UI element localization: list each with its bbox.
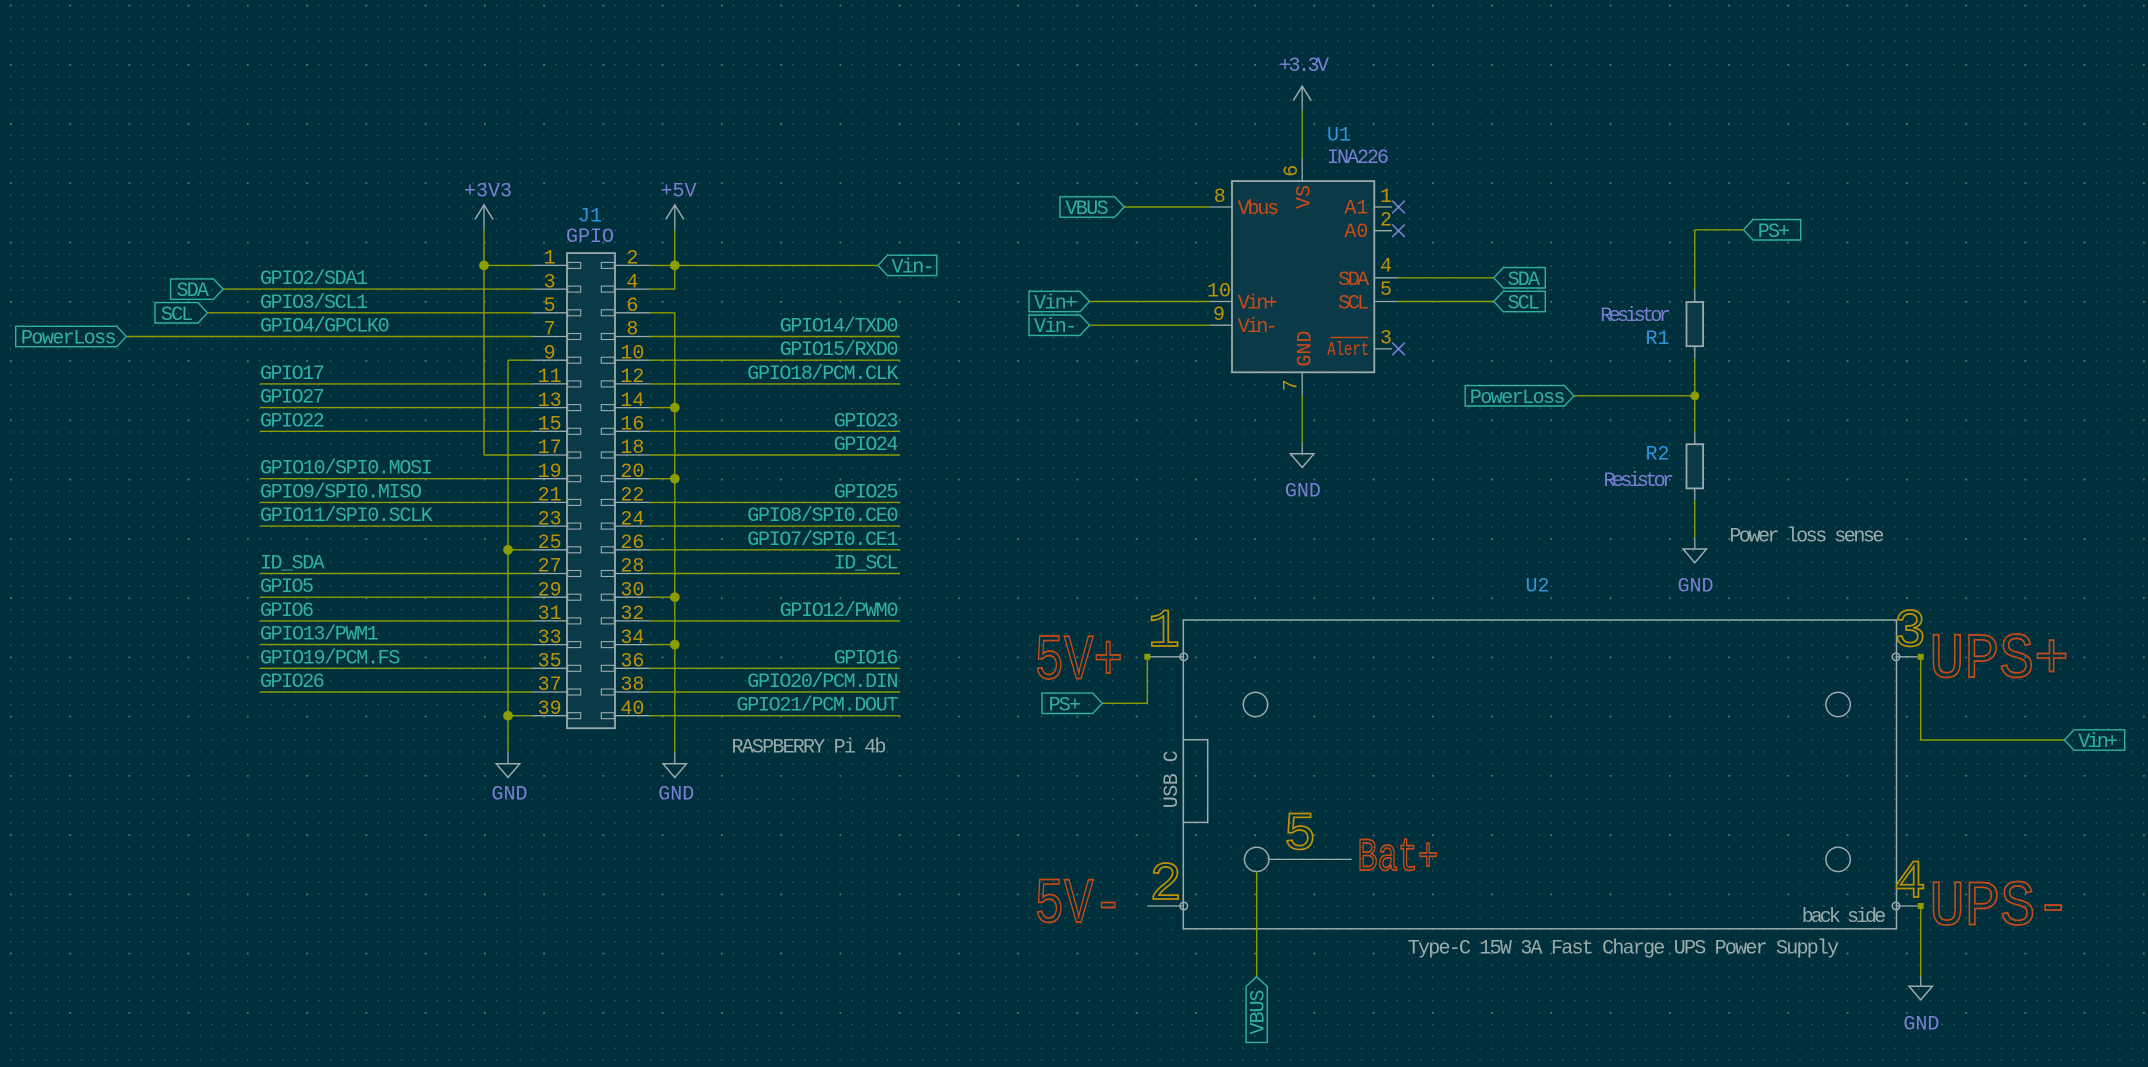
svg-text:19: 19 xyxy=(538,461,562,484)
svg-text:39: 39 xyxy=(538,698,562,721)
net label GPIO9/SPI0.MISO xyxy=(260,481,422,504)
net label GPIO19/PCM.FS xyxy=(260,647,400,670)
U2 pin 2 xyxy=(1035,855,1188,942)
hier label SDA xyxy=(171,279,224,303)
wire +3V3 to J1 pin 1 xyxy=(484,264,532,266)
reference U2 xyxy=(1526,576,1550,599)
net label GPIO10/SPI0.MOSI xyxy=(260,458,433,481)
wire GND to J1 pin 9 xyxy=(508,359,532,361)
svg-text:GPIO16: GPIO16 xyxy=(834,647,899,670)
wire GND to J1 pin 25 xyxy=(508,549,532,551)
svg-text:UPS-: UPS- xyxy=(1929,873,2070,945)
wire PowerLoss to J1 pin 7 xyxy=(126,336,532,338)
wire J1 pin 4 to +5V xyxy=(650,288,675,290)
svg-text:GPIO4/GPCLK0: GPIO4/GPCLK0 xyxy=(260,316,390,339)
svg-text:GND: GND xyxy=(1285,480,1321,503)
svg-text:10: 10 xyxy=(620,342,644,365)
net label GPIO15/RXD0 xyxy=(780,339,899,362)
wire GPIO14 pin 8 xyxy=(650,336,900,338)
net label GPIO26 xyxy=(260,671,325,694)
svg-text:GPIO: GPIO xyxy=(566,226,614,249)
svg-text:4: 4 xyxy=(626,271,638,294)
hier label SCL right xyxy=(1494,291,1546,315)
module U2 body xyxy=(1183,620,1896,929)
wire VBUS to U1 pin 8 xyxy=(1124,206,1210,208)
svg-text:GND: GND xyxy=(658,784,694,807)
wire PS+ to divider xyxy=(1695,230,1744,290)
U1 pin 7 GND xyxy=(1280,331,1317,396)
wire GPIO9 pin 21 xyxy=(260,501,532,503)
U1 pin 4 SDA xyxy=(1338,256,1398,292)
svg-text:4: 4 xyxy=(1894,853,1926,914)
svg-text:Vin-: Vin- xyxy=(892,256,935,279)
wire GPIO13 pin 33 xyxy=(260,644,532,646)
svg-text:ID_SDA: ID_SDA xyxy=(260,553,325,576)
wire GPIO20 pin 38 xyxy=(650,691,900,693)
wire +3V3 vertical xyxy=(483,230,485,455)
wire GPIO25 pin 22 xyxy=(650,501,900,503)
wire +3V3 to J1 pin 17 xyxy=(484,454,532,456)
svg-text:SCL: SCL xyxy=(1508,293,1540,316)
note RASPBERRY Pi 4b xyxy=(732,737,887,760)
wire +5V vertical xyxy=(674,230,676,290)
value Resistor R1 xyxy=(1600,305,1671,328)
net label GPIO24 xyxy=(834,434,899,457)
svg-text:Type-C 15W 3A Fast Charge UPS: Type-C 15W 3A Fast Charge UPS Power Supp… xyxy=(1408,938,1839,961)
net label GPIO22 xyxy=(260,410,325,433)
hier label Vin- at U1 xyxy=(1029,315,1090,339)
svg-text:USB C: USB C xyxy=(1161,750,1184,808)
wire +3.3V to U1 pin 6 xyxy=(1301,110,1303,157)
U2 pin 1 xyxy=(1035,602,1188,698)
svg-text:9: 9 xyxy=(1213,304,1225,327)
svg-text:GPIO10/SPI0.MOSI: GPIO10/SPI0.MOSI xyxy=(260,458,433,481)
svg-text:RASPBERRY Pi 4b: RASPBERRY Pi 4b xyxy=(732,737,887,760)
junction +5V pin2 xyxy=(670,261,680,271)
svg-text:GND: GND xyxy=(491,784,527,807)
svg-text:U2: U2 xyxy=(1526,576,1550,599)
note Type-C 15W 3A Fast Charge UPS Power Supply xyxy=(1408,938,1839,961)
svg-text:18: 18 xyxy=(620,437,644,460)
U1 pin 10 Vin+ xyxy=(1207,280,1278,315)
svg-text:22: 22 xyxy=(620,485,644,508)
U2 mount hole top-right xyxy=(1826,692,1850,716)
net label GPIO4/GPCLK0 xyxy=(260,316,390,339)
wire U2 pin 4 to GND xyxy=(1920,909,1922,977)
svg-text:15: 15 xyxy=(538,414,562,437)
svg-text:17: 17 xyxy=(538,437,562,460)
hier label VBUS xyxy=(1060,197,1124,221)
svg-text:40: 40 xyxy=(620,698,644,721)
net label GPIO8/SPI0.CE0 xyxy=(747,505,898,528)
wire J1 pin 6 to GND xyxy=(650,312,675,314)
svg-text:GPIO22: GPIO22 xyxy=(260,410,325,433)
ground J1 right xyxy=(658,752,694,807)
U1 pin 8 Vbus xyxy=(1210,186,1279,221)
svg-text:31: 31 xyxy=(538,603,562,626)
U1 pin 2 A0 xyxy=(1344,210,1392,245)
svg-text:GPIO7/SPI0.CE1: GPIO7/SPI0.CE1 xyxy=(747,529,898,552)
junction GND pin20 xyxy=(670,474,680,484)
svg-text:37: 37 xyxy=(538,674,562,697)
hier label Vin+ U2 xyxy=(2065,730,2125,754)
svg-text:8: 8 xyxy=(1214,186,1226,209)
svg-text:2: 2 xyxy=(1380,210,1392,233)
svg-text:6: 6 xyxy=(1281,165,1304,177)
hier label PS+ U2 xyxy=(1042,693,1102,717)
svg-text:6: 6 xyxy=(626,295,638,318)
svg-text:11: 11 xyxy=(538,366,562,389)
U2 pin 3 xyxy=(1892,602,2069,697)
svg-text:GPIO2/SDA1: GPIO2/SDA1 xyxy=(260,268,368,291)
svg-text:8: 8 xyxy=(626,319,638,342)
hier label PowerLoss divider xyxy=(1465,386,1574,410)
svg-text:GPIO5: GPIO5 xyxy=(260,576,314,599)
wire GPIO5 pin 29 xyxy=(260,596,532,598)
svg-text:GPIO8/SPI0.CE0: GPIO8/SPI0.CE0 xyxy=(747,505,898,528)
resistor R1 xyxy=(1687,290,1704,358)
svg-text:GND: GND xyxy=(1903,1014,1939,1037)
power +3V3 xyxy=(464,180,512,229)
svg-text:23: 23 xyxy=(538,508,562,531)
svg-text:5V-: 5V- xyxy=(1035,870,1124,942)
svg-text:R1: R1 xyxy=(1645,328,1669,351)
hier label Vin- right of pin2 xyxy=(878,255,937,279)
svg-text:PowerLoss: PowerLoss xyxy=(21,328,117,351)
svg-text:21: 21 xyxy=(538,485,562,508)
wire J1 pin 30 to GND xyxy=(650,596,675,598)
svg-text:30: 30 xyxy=(620,579,644,602)
svg-text:R2: R2 xyxy=(1645,444,1669,467)
svg-text:VBUS: VBUS xyxy=(1247,990,1270,1035)
svg-text:2: 2 xyxy=(1149,855,1181,916)
net label GPIO17 xyxy=(260,363,325,386)
net label GPIO27 xyxy=(260,387,325,410)
power +5V xyxy=(660,180,696,229)
wire GPIO7 pin 26 xyxy=(650,549,900,551)
net label GPIO5 xyxy=(260,576,314,599)
junction GND pin39 xyxy=(503,711,513,721)
svg-text:Resistor: Resistor xyxy=(1604,470,1675,493)
svg-text:Vin-: Vin- xyxy=(1034,316,1077,339)
U1 pin 9 Vin- xyxy=(1210,304,1278,339)
net label GPIO18/PCM.CLK xyxy=(747,363,898,386)
U2 pin 5 Bat+ xyxy=(1269,805,1438,884)
svg-text:34: 34 xyxy=(620,627,644,650)
hier label PowerLoss xyxy=(16,326,127,350)
U1 pin 3 Alert xyxy=(1327,328,1392,362)
svg-text:GPIO20/PCM.DIN: GPIO20/PCM.DIN xyxy=(747,671,898,694)
svg-text:28: 28 xyxy=(620,556,644,579)
svg-text:2: 2 xyxy=(626,248,638,271)
svg-text:Vin+: Vin+ xyxy=(1034,293,1077,316)
svg-text:Bat+: Bat+ xyxy=(1357,832,1438,884)
wire ID_SDA pin 27 xyxy=(260,573,532,575)
no-connect U1 pin 1 xyxy=(1392,201,1405,214)
wire GPIO15 pin 10 xyxy=(650,359,900,361)
net label GPIO12/PWM0 xyxy=(780,600,899,623)
wire PowerLoss to divider xyxy=(1574,395,1695,397)
net label GPIO25 xyxy=(834,481,899,504)
wire GPIO21 pin 40 xyxy=(650,715,900,717)
note back side xyxy=(1802,906,1886,929)
value GPIO xyxy=(566,226,614,249)
net label GPIO6 xyxy=(260,600,314,623)
svg-text:33: 33 xyxy=(538,627,562,650)
USB C connector box xyxy=(1183,740,1207,823)
net label GPIO14/TXD0 xyxy=(780,316,899,339)
junction GND pin25 xyxy=(503,545,513,555)
svg-text:GPIO19/PCM.FS: GPIO19/PCM.FS xyxy=(260,647,400,670)
svg-text:A0: A0 xyxy=(1344,221,1368,244)
svg-text:5: 5 xyxy=(544,295,556,318)
svg-text:3: 3 xyxy=(544,271,556,294)
net label GPIO23 xyxy=(834,410,899,433)
wire GPIO18 pin 12 xyxy=(650,383,900,385)
hier label SDA right xyxy=(1494,268,1546,292)
wire SDA to J1 pin 3 xyxy=(223,288,532,290)
svg-text:1: 1 xyxy=(1148,602,1180,663)
wire U2 pin 3 to Vin+ xyxy=(1921,660,2065,740)
wire U1 pin 4 to SDA label xyxy=(1398,277,1494,279)
svg-text:+3.3V: +3.3V xyxy=(1279,55,1329,78)
ground divider xyxy=(1677,538,1713,599)
svg-text:SDA: SDA xyxy=(177,280,209,303)
reference U1 xyxy=(1327,125,1351,148)
svg-text:29: 29 xyxy=(538,579,562,602)
svg-text:Vin+: Vin+ xyxy=(1238,293,1278,316)
wire J1 pin 2 to Vin- label xyxy=(650,264,878,266)
svg-text:25: 25 xyxy=(538,532,562,555)
ground U1 xyxy=(1285,443,1321,504)
svg-text:26: 26 xyxy=(620,532,644,555)
wire U1 pin 5 to SCL label xyxy=(1398,301,1494,303)
svg-text:UPS+: UPS+ xyxy=(1929,625,2069,697)
svg-text:27: 27 xyxy=(538,556,562,579)
net label GPIO11/SPI0.SCLK xyxy=(260,505,433,528)
power +3.3V xyxy=(1279,55,1329,110)
hier label PS+ divider xyxy=(1744,220,1801,244)
svg-text:1: 1 xyxy=(544,248,556,271)
wire GPIO22 pin 15 xyxy=(260,430,532,432)
reference R1 xyxy=(1645,328,1669,351)
wire PS+ to U2 pin 1 xyxy=(1102,660,1147,703)
wire GPIO10 pin 19 xyxy=(260,478,532,480)
net label GPIO2/SDA1 xyxy=(260,268,368,291)
junction +3V3 pin1 xyxy=(479,261,489,271)
svg-text:+3V3: +3V3 xyxy=(464,180,512,203)
svg-text:3: 3 xyxy=(1894,602,1926,663)
U2 mount hole top-left xyxy=(1243,692,1267,716)
svg-text:GPIO24: GPIO24 xyxy=(834,434,899,457)
svg-text:GND: GND xyxy=(1294,331,1317,367)
junction GND pin14 xyxy=(670,403,680,413)
svg-text:4: 4 xyxy=(1380,256,1392,279)
svg-text:GPIO11/SPI0.SCLK: GPIO11/SPI0.SCLK xyxy=(260,505,433,528)
wire Vin+ to U1 pin 10 xyxy=(1090,301,1210,303)
wire GPIO12 pin 32 xyxy=(650,620,900,622)
net label ID_SDA xyxy=(260,553,325,576)
no-connect U1 pin 3 xyxy=(1392,343,1405,356)
svg-text:3: 3 xyxy=(1380,328,1392,351)
svg-text:5: 5 xyxy=(1284,805,1316,866)
svg-text:7: 7 xyxy=(1280,379,1303,391)
svg-text:5: 5 xyxy=(1380,279,1392,302)
svg-text:GPIO27: GPIO27 xyxy=(260,387,325,410)
svg-text:SCL: SCL xyxy=(161,304,193,327)
svg-text:9: 9 xyxy=(544,342,556,365)
svg-text:SDA: SDA xyxy=(1508,269,1540,292)
net label GPIO16 xyxy=(834,647,899,670)
ground J1 left xyxy=(491,752,527,807)
value INA226 xyxy=(1327,147,1389,170)
U2 mount hole bottom-left xyxy=(1245,847,1269,871)
svg-text:Power loss sense: Power loss sense xyxy=(1729,526,1884,549)
wire R1 to R2 xyxy=(1694,358,1696,432)
svg-text:PS+: PS+ xyxy=(1758,221,1790,244)
svg-text:back side: back side xyxy=(1802,906,1886,929)
hier label Vin+ at U1 xyxy=(1029,291,1090,315)
connector J1 body xyxy=(567,253,615,728)
svg-text:GPIO14/TXD0: GPIO14/TXD0 xyxy=(780,316,899,339)
junction GND pin30 xyxy=(670,592,680,602)
wire GPIO11 pin 23 xyxy=(260,525,532,527)
svg-text:32: 32 xyxy=(620,603,644,626)
svg-text:Vbus: Vbus xyxy=(1238,198,1280,221)
svg-text:10: 10 xyxy=(1207,280,1231,303)
net label GPIO7/SPI0.CE1 xyxy=(747,529,898,552)
value Resistor R2 xyxy=(1604,470,1675,493)
svg-text:GND: GND xyxy=(1677,576,1713,599)
wire GPIO17 pin 11 xyxy=(260,383,532,385)
wire R2 to GND xyxy=(1694,500,1696,538)
wire GPIO6 pin 31 xyxy=(260,620,532,622)
U2 pin 4 xyxy=(1892,853,2071,945)
svg-text:16: 16 xyxy=(620,414,644,437)
svg-text:5V+: 5V+ xyxy=(1035,626,1124,698)
svg-text:13: 13 xyxy=(538,390,562,413)
net label GPIO20/PCM.DIN xyxy=(747,671,898,694)
svg-text:VBUS: VBUS xyxy=(1065,198,1108,221)
svg-text:PowerLoss: PowerLoss xyxy=(1470,387,1566,410)
svg-text:Vin-: Vin- xyxy=(1238,316,1278,339)
net label GPIO3/SCL1 xyxy=(260,292,368,315)
svg-text:1: 1 xyxy=(1380,186,1392,209)
svg-text:GPIO9/SPI0.MISO: GPIO9/SPI0.MISO xyxy=(260,481,422,504)
svg-text:GPIO25: GPIO25 xyxy=(834,481,899,504)
svg-text:GPIO17: GPIO17 xyxy=(260,363,325,386)
reference R2 xyxy=(1645,444,1669,467)
wire GPIO23 pin 16 xyxy=(650,430,900,432)
net label GPIO13/PWM1 xyxy=(260,624,379,647)
svg-text:+5V: +5V xyxy=(660,180,696,203)
svg-text:GPIO18/PCM.CLK: GPIO18/PCM.CLK xyxy=(747,363,898,386)
svg-text:GPIO3/SCL1: GPIO3/SCL1 xyxy=(260,292,368,315)
U1 pin 6 VS xyxy=(1281,157,1317,209)
wire U2 pin 5 to VBUS xyxy=(1256,872,1258,977)
net label ID_SCL xyxy=(834,553,899,576)
svg-text:U1: U1 xyxy=(1327,125,1351,148)
svg-text:20: 20 xyxy=(620,461,644,484)
svg-text:7: 7 xyxy=(544,319,556,342)
svg-text:ID_SCL: ID_SCL xyxy=(834,553,899,576)
wire U1 pin 7 to GND xyxy=(1301,396,1303,443)
svg-text:Vin+: Vin+ xyxy=(2078,731,2118,754)
svg-text:Resistor: Resistor xyxy=(1600,305,1671,328)
wire GND left vertical xyxy=(507,360,509,752)
note USB C xyxy=(1161,750,1184,808)
wire GPIO24 pin 18 xyxy=(650,454,900,456)
svg-text:GPIO21/PCM.DOUT: GPIO21/PCM.DOUT xyxy=(737,695,899,718)
J1 pin numbers xyxy=(538,248,645,721)
wire SCL to J1 pin 5 xyxy=(208,312,533,314)
svg-text:GPIO12/PWM0: GPIO12/PWM0 xyxy=(780,600,899,623)
wire Vin- to U1 pin 9 xyxy=(1090,324,1210,326)
svg-text:GPIO6: GPIO6 xyxy=(260,600,314,623)
U1 pin 1 A1 xyxy=(1344,186,1392,221)
wire GPIO16 pin 36 xyxy=(650,667,900,669)
resistor R2 xyxy=(1687,432,1704,500)
ground U2 xyxy=(1903,977,1939,1037)
U1 pin 5 SCL xyxy=(1338,279,1398,316)
wire GPIO8 pin 24 xyxy=(650,525,900,527)
svg-text:GPIO13/PWM1: GPIO13/PWM1 xyxy=(260,624,379,647)
svg-text:36: 36 xyxy=(620,651,644,674)
svg-text:12: 12 xyxy=(620,366,644,389)
svg-text:GPIO15/RXD0: GPIO15/RXD0 xyxy=(780,339,899,362)
svg-text:24: 24 xyxy=(620,508,644,531)
svg-text:35: 35 xyxy=(538,651,562,674)
svg-text:Alert: Alert xyxy=(1327,339,1369,361)
no-connect U1 pin 2 xyxy=(1392,224,1405,237)
reference J1 xyxy=(578,206,602,229)
svg-text:A1: A1 xyxy=(1344,198,1368,221)
wire ID_SCL pin 28 xyxy=(650,573,900,575)
note Power loss sense xyxy=(1729,526,1884,549)
wire GPIO26 pin 37 xyxy=(260,691,532,693)
wire GND to J1 pin 39 xyxy=(508,715,532,717)
wire GND right vertical xyxy=(674,313,676,752)
svg-text:SCL: SCL xyxy=(1338,293,1369,316)
svg-text:GPIO23: GPIO23 xyxy=(834,410,899,433)
wire J1 pin 34 to GND xyxy=(650,644,675,646)
J1 pins xyxy=(532,262,649,718)
wire GPIO19 pin 35 xyxy=(260,667,532,669)
hier label SCL xyxy=(155,303,208,327)
wire J1 pin 20 to GND xyxy=(650,478,675,480)
svg-text:VS: VS xyxy=(1294,185,1317,209)
svg-text:38: 38 xyxy=(620,674,644,697)
svg-text:SDA: SDA xyxy=(1338,269,1369,292)
wire GPIO27 pin 13 xyxy=(260,407,532,409)
wire J1 pin 14 to GND xyxy=(650,407,675,409)
net label GPIO21/PCM.DOUT xyxy=(737,695,899,718)
junction GND pin34 xyxy=(670,640,680,650)
op-amp U1 body xyxy=(1232,181,1374,372)
hier label VBUS U2 xyxy=(1246,977,1270,1043)
svg-text:14: 14 xyxy=(620,390,644,413)
junction PowerLoss divider xyxy=(1690,391,1699,400)
U2 mount hole bottom-right xyxy=(1826,847,1850,871)
svg-text:INA226: INA226 xyxy=(1327,147,1389,170)
svg-text:GPIO26: GPIO26 xyxy=(260,671,325,694)
